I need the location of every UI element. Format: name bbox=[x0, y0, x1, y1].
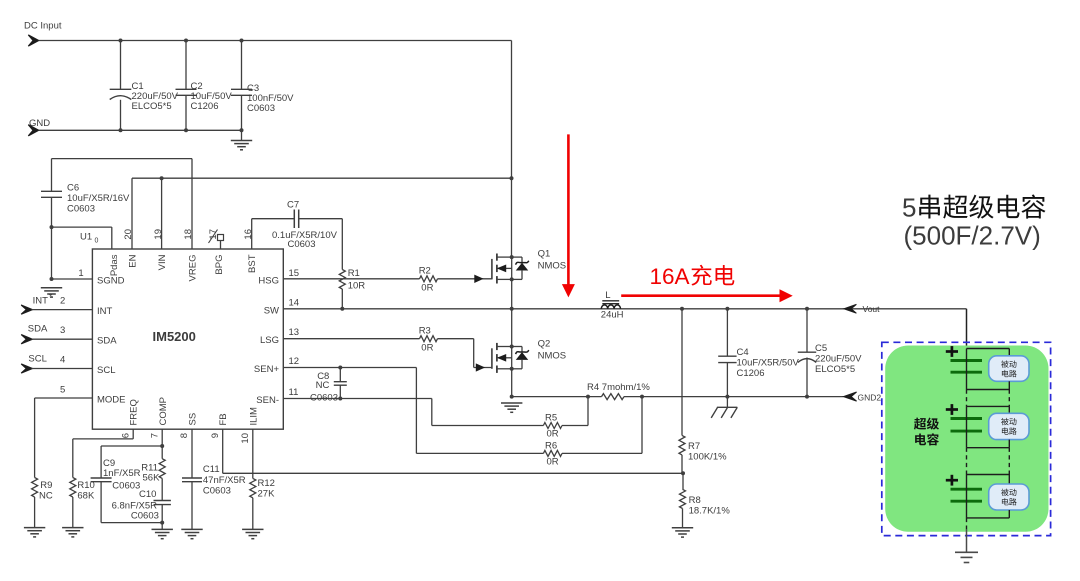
dashed link 2-3 bbox=[966, 448, 968, 475]
wire HSG pin 15 bbox=[283, 278, 342, 280]
wire GND2 rail bbox=[512, 396, 602, 398]
resistor R10 bbox=[132, 429, 134, 439]
svg-text:C10: C10 bbox=[139, 489, 156, 500]
svg-text:Q2: Q2 bbox=[538, 339, 551, 350]
supercap cell 3 bbox=[967, 474, 1010, 476]
wire Q1 source to SW bbox=[511, 279, 513, 308]
ground at SGND bbox=[41, 287, 62, 289]
gate arrow Q1 bbox=[475, 275, 483, 282]
text supercap label bbox=[914, 418, 926, 430]
svg-text:R7: R7 bbox=[688, 441, 700, 452]
svg-text:68K: 68K bbox=[77, 491, 95, 502]
svg-text:SCL: SCL bbox=[28, 353, 46, 364]
svg-text:BPG: BPG bbox=[214, 255, 225, 275]
resistor R3 bbox=[420, 336, 438, 342]
resistor R8 bbox=[682, 473, 684, 489]
svg-text:L: L bbox=[605, 290, 610, 301]
svg-text:3: 3 bbox=[60, 325, 65, 336]
svg-text:6: 6 bbox=[120, 433, 131, 438]
svg-text:10uF/X5R/16V: 10uF/X5R/16V bbox=[67, 193, 130, 204]
wire DC rail vertical drop to Q1 drain bbox=[511, 41, 513, 258]
svg-text:9: 9 bbox=[210, 433, 221, 438]
svg-text:0R: 0R bbox=[547, 457, 559, 468]
svg-text:FREQ: FREQ bbox=[129, 399, 140, 425]
resistor R4 bbox=[602, 394, 625, 400]
svg-text:NC: NC bbox=[39, 491, 53, 502]
svg-text:BST: BST bbox=[247, 254, 258, 273]
svg-text:4: 4 bbox=[60, 354, 65, 365]
capacitor C2 bbox=[185, 41, 187, 90]
svg-text:C0603: C0603 bbox=[288, 239, 316, 250]
svg-text:HSG: HSG bbox=[258, 276, 279, 287]
svg-text:C0603: C0603 bbox=[67, 204, 95, 215]
svg-text:C7: C7 bbox=[287, 200, 299, 211]
svg-text:18: 18 bbox=[183, 229, 194, 240]
svg-text:1: 1 bbox=[78, 268, 83, 279]
svg-text:LSG: LSG bbox=[260, 335, 279, 346]
svg-text:INT: INT bbox=[97, 306, 113, 317]
svg-text:Vout: Vout bbox=[863, 304, 881, 314]
ground below R9 bbox=[24, 527, 45, 529]
svg-text:18.7K/1%: 18.7K/1% bbox=[689, 506, 731, 517]
resistor R1 bbox=[341, 219, 343, 270]
capacitor C7 bbox=[251, 219, 253, 249]
svg-text:SDA: SDA bbox=[97, 336, 117, 347]
svg-text:100K/1%: 100K/1% bbox=[688, 452, 727, 463]
svg-text:10: 10 bbox=[240, 433, 251, 444]
wire COMP pin 7 bbox=[161, 429, 163, 446]
supercap green module box bbox=[885, 346, 1048, 532]
svg-text:COMP: COMP bbox=[158, 397, 169, 426]
wire Pdas pin link bbox=[52, 226, 112, 228]
svg-text:C0603: C0603 bbox=[247, 103, 275, 114]
svg-text:19: 19 bbox=[153, 229, 164, 240]
svg-text:ELCO5*5: ELCO5*5 bbox=[132, 101, 172, 112]
svg-text:C4: C4 bbox=[737, 347, 749, 358]
svg-text:14: 14 bbox=[289, 297, 300, 308]
svg-text:R5: R5 bbox=[545, 412, 557, 423]
capacitor C5 bbox=[806, 309, 808, 352]
svg-text:C1206: C1206 bbox=[191, 101, 219, 112]
op-amp U1 IM5200 body bbox=[92, 249, 283, 429]
svg-text:7: 7 bbox=[149, 433, 160, 438]
capacitor C3 bbox=[241, 41, 243, 90]
svg-text:SEN+: SEN+ bbox=[254, 364, 280, 375]
svg-text:220uF/50V: 220uF/50V bbox=[815, 354, 862, 365]
svg-text:R4 7mohm/1%: R4 7mohm/1% bbox=[587, 382, 650, 393]
svg-text:C5: C5 bbox=[815, 343, 827, 354]
svg-text:ILIM: ILIM bbox=[248, 407, 259, 426]
svg-text:IM5200: IM5200 bbox=[153, 329, 196, 344]
svg-text:R8: R8 bbox=[689, 495, 701, 506]
port GND2 bbox=[844, 392, 857, 401]
ground below C11 bbox=[181, 528, 202, 530]
svg-text:47nF/X5R: 47nF/X5R bbox=[203, 475, 246, 486]
svg-text:NMOS: NMOS bbox=[538, 351, 567, 362]
svg-text:NMOS: NMOS bbox=[538, 261, 567, 272]
svg-text:0: 0 bbox=[95, 238, 99, 245]
red arrow down into SW node bbox=[567, 134, 570, 285]
svg-text:8: 8 bbox=[179, 433, 190, 438]
wire stack bottom bbox=[966, 518, 968, 529]
svg-text:SCL: SCL bbox=[97, 365, 115, 376]
svg-text:MODE: MODE bbox=[97, 395, 126, 406]
svg-text:20: 20 bbox=[123, 229, 134, 240]
svg-text:SW: SW bbox=[264, 305, 279, 316]
svg-text:SEN-: SEN- bbox=[256, 395, 279, 406]
svg-text:VREG: VREG bbox=[188, 255, 199, 282]
resistor R9 bbox=[34, 398, 36, 478]
ground below R12 bbox=[242, 528, 263, 530]
svg-text:10uF/X5R/50V: 10uF/X5R/50V bbox=[737, 358, 800, 369]
svg-text:10R: 10R bbox=[348, 281, 366, 292]
svg-text:11: 11 bbox=[289, 387, 299, 398]
red arrow 16A charge direction bbox=[621, 294, 780, 297]
capacitor C4 bbox=[726, 309, 728, 356]
wire SEN- pin 11 bbox=[283, 398, 432, 400]
svg-text:C0603: C0603 bbox=[310, 393, 338, 404]
svg-text:56K: 56K bbox=[143, 473, 161, 484]
svg-text:DC Input: DC Input bbox=[24, 21, 62, 32]
svg-text:5: 5 bbox=[902, 193, 916, 223]
svg-text:5: 5 bbox=[60, 384, 65, 395]
resistor R6 bbox=[543, 450, 562, 456]
wire LSG pin 13 bbox=[283, 338, 419, 340]
wire SEN+ pin 12 bbox=[283, 367, 416, 369]
svg-text:C1206: C1206 bbox=[737, 368, 765, 379]
gate arrow Q2 bbox=[476, 364, 484, 371]
svg-text:R6: R6 bbox=[545, 440, 557, 451]
inductor L 24uH bbox=[602, 300, 619, 302]
capacitor C10 bbox=[154, 500, 171, 502]
svg-text:R3: R3 bbox=[419, 326, 431, 337]
wire SGND pin 1 bbox=[52, 278, 93, 280]
wire Vout to supercap stack bbox=[966, 309, 968, 349]
svg-text:R9: R9 bbox=[40, 480, 52, 491]
resistor R7 bbox=[681, 309, 683, 436]
svg-text:NC: NC bbox=[316, 380, 330, 391]
resistor R2 bbox=[342, 278, 419, 280]
ground below C10 bbox=[152, 528, 173, 530]
svg-text:16A: 16A bbox=[650, 264, 690, 289]
svg-text:U1: U1 bbox=[80, 232, 92, 243]
svg-text:24uH: 24uH bbox=[601, 310, 624, 321]
svg-text:13: 13 bbox=[289, 327, 300, 338]
svg-text:GND2: GND2 bbox=[858, 392, 882, 402]
svg-text:FB: FB bbox=[218, 413, 229, 425]
svg-text:SDA: SDA bbox=[28, 324, 48, 335]
svg-text:VIN: VIN bbox=[157, 254, 168, 270]
dashed link 1-2 bbox=[966, 390, 968, 407]
svg-text:C0603: C0603 bbox=[112, 481, 140, 492]
capacitor C8 bbox=[339, 368, 341, 382]
resistor R11 bbox=[161, 446, 163, 459]
capacitor C9 bbox=[91, 477, 112, 479]
capacitor C1 bbox=[120, 41, 122, 90]
svg-text:2: 2 bbox=[60, 296, 65, 307]
svg-text:0R: 0R bbox=[421, 343, 433, 354]
resistor R12 bbox=[252, 429, 254, 478]
svg-text:27K: 27K bbox=[258, 489, 276, 500]
svg-text:0R: 0R bbox=[421, 283, 433, 294]
resistor R5 bbox=[543, 423, 562, 429]
wire EN/VIN rail to DC input bbox=[132, 177, 512, 179]
svg-text:C0603: C0603 bbox=[203, 486, 231, 497]
ground at Q2 source bbox=[501, 402, 522, 404]
svg-text:C6: C6 bbox=[67, 183, 79, 194]
wire C6 to VREG rail bbox=[52, 158, 193, 160]
svg-text:*: * bbox=[49, 293, 52, 302]
svg-text:SGND: SGND bbox=[97, 276, 125, 287]
wire FB pin 9 to divider bbox=[222, 429, 224, 473]
svg-text:R12: R12 bbox=[258, 478, 275, 489]
capacitor C6 bbox=[51, 159, 53, 192]
svg-text:1nF/X5R: 1nF/X5R bbox=[103, 468, 141, 479]
svg-text:0R: 0R bbox=[547, 429, 559, 440]
ground below supercap stack bbox=[955, 551, 978, 553]
svg-text:12: 12 bbox=[289, 356, 300, 367]
svg-text:C11: C11 bbox=[203, 464, 220, 475]
port Vout bbox=[844, 304, 857, 313]
wire Q2 source to GND2 rail bbox=[511, 369, 513, 397]
svg-text:(500F/2.7V): (500F/2.7V) bbox=[904, 221, 1041, 251]
svg-text:R2: R2 bbox=[419, 266, 431, 277]
chassis ground at C4 bbox=[726, 397, 728, 408]
svg-text:ELCO5*5: ELCO5*5 bbox=[815, 364, 855, 375]
ground below R8 bbox=[672, 527, 693, 529]
svg-text:Pdas: Pdas bbox=[109, 254, 120, 276]
pin 17 BPG no-connect bbox=[218, 235, 224, 241]
wire Q2 drain to SW bbox=[511, 309, 513, 347]
ground below C3 bbox=[231, 140, 252, 142]
wire GND rail bbox=[39, 129, 242, 131]
wire DC input rail bbox=[39, 40, 512, 42]
capacitor C11 bbox=[191, 429, 193, 478]
svg-text:INT: INT bbox=[33, 296, 49, 307]
svg-text:EN: EN bbox=[128, 254, 139, 267]
wire SW pin 14 bbox=[283, 308, 966, 310]
svg-text:Q1: Q1 bbox=[538, 249, 551, 260]
supercap cell 1 bbox=[967, 348, 1010, 350]
svg-text:R1: R1 bbox=[348, 268, 360, 279]
svg-text:SS: SS bbox=[188, 413, 199, 426]
svg-text:C0603: C0603 bbox=[131, 511, 159, 522]
transistor Q2 bbox=[491, 348, 493, 369]
transistor Q1 bbox=[491, 259, 493, 280]
ground below R10 bbox=[62, 527, 83, 529]
supercap cell 2 bbox=[967, 405, 1010, 407]
svg-text:15: 15 bbox=[289, 268, 300, 279]
